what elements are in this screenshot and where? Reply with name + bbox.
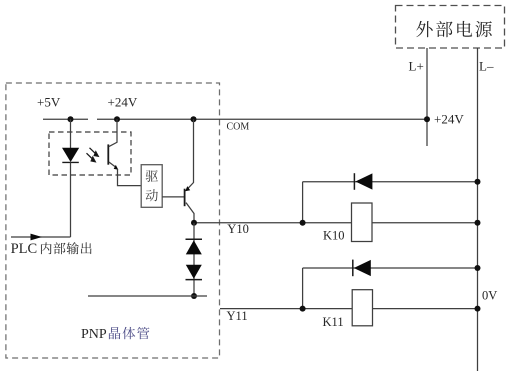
- wire LED cathode down: [70, 162, 72, 237]
- PNP transistor collector wire: [186, 203, 194, 223]
- wire to clamp diodes: [193, 223, 195, 296]
- PNP emitter arrowhead: [185, 186, 190, 191]
- wire internal bottom rail: [88, 295, 207, 297]
- wire drive box to transistor base: [162, 196, 184, 198]
- node Y11 to L-: [475, 306, 481, 312]
- phototransistor emitter with arrow: [109, 162, 116, 168]
- wire emitter to drive box: [118, 169, 142, 186]
- node Y10 to L-: [475, 220, 481, 226]
- label 外部电源 (external power supply): [416, 21, 492, 37]
- flyback diode D4 cathode bar: [353, 173, 355, 190]
- node transistor emitter on COM rail: [191, 116, 197, 122]
- flyback diode D4 (pointing left): [355, 173, 372, 189]
- svg-text:PLC: PLC: [11, 241, 38, 257]
- wire LED anode: [70, 119, 72, 148]
- svg-text:PNP: PNP: [81, 327, 107, 342]
- PLC internal circuit dashed enclosure: [6, 83, 220, 358]
- svg-text:K11: K11: [323, 315, 344, 329]
- node COM to L+ junction +24V: [424, 116, 430, 122]
- wire COM rail: [97, 118, 427, 120]
- drive box U2 驱动: [141, 165, 162, 208]
- relay coil K10: [352, 203, 373, 242]
- PNP transistor emitter wire from COM: [187, 119, 194, 190]
- LED D1 of optocoupler: [62, 148, 79, 162]
- node diode bottom junction: [191, 293, 197, 299]
- node K11 branch on Y11: [300, 306, 306, 312]
- svg-text:Y10: Y10: [227, 222, 249, 236]
- wire Y11 rail: [220, 308, 478, 310]
- svg-text:L+: L+: [409, 59, 424, 74]
- wire L- vertical: [477, 48, 479, 371]
- svg-text:L–: L–: [479, 59, 494, 74]
- svg-text:+24V: +24V: [434, 112, 464, 127]
- svg-text:0V: 0V: [482, 289, 497, 303]
- optocoupler U1 dashed enclosure: [49, 132, 131, 175]
- flyback diode D5 (pointing left): [354, 260, 371, 276]
- wire K10 flyback line: [303, 181, 478, 183]
- node flyback K11 to L-: [475, 265, 481, 271]
- svg-text:+24V: +24V: [108, 95, 138, 110]
- external power supply box U-EXT: [396, 6, 505, 49]
- wire K11 branch vertical: [302, 268, 304, 309]
- svg-text:+5V: +5V: [37, 95, 61, 110]
- phototransistor Q1 base bar: [107, 144, 109, 164]
- clamp diode D3 cathode bar: [186, 279, 203, 281]
- optocoupler light arrow 1: [90, 148, 99, 157]
- clamp diode D3 (pointing down): [186, 265, 202, 279]
- svg-text:COM: COM: [227, 122, 250, 133]
- flyback diode D5 cathode bar: [352, 260, 354, 277]
- wire K11 flyback line: [303, 267, 478, 269]
- wire L+ vertical: [426, 48, 428, 146]
- wire +5V rail stub: [43, 118, 88, 120]
- optocoupler light arrow 2: [87, 153, 96, 162]
- label 动: [146, 189, 158, 201]
- PNP transistor Q2 base bar: [184, 189, 186, 207]
- wire Y10 rail: [194, 222, 478, 224]
- clamp diode D2 cathode bar: [186, 238, 203, 240]
- wire PLC internal output horizontal: [11, 236, 71, 238]
- wire K10 branch vertical: [302, 182, 304, 223]
- phototransistor collector: [109, 119, 117, 146]
- node K10 branch on Y10: [300, 220, 306, 226]
- svg-text:K10: K10: [323, 228, 345, 242]
- node flyback to L-: [475, 179, 481, 185]
- label 驱: [146, 170, 158, 182]
- clamp diode D2 (pointing up): [186, 240, 202, 254]
- node collector to Y10: [191, 220, 197, 226]
- relay coil K11: [352, 290, 372, 326]
- node LED anode on +5V rail: [68, 116, 74, 122]
- svg-text:Y11: Y11: [227, 309, 248, 323]
- arrow on PLC output wire: [31, 234, 43, 241]
- node phototransistor collector on COM rail: [114, 116, 120, 122]
